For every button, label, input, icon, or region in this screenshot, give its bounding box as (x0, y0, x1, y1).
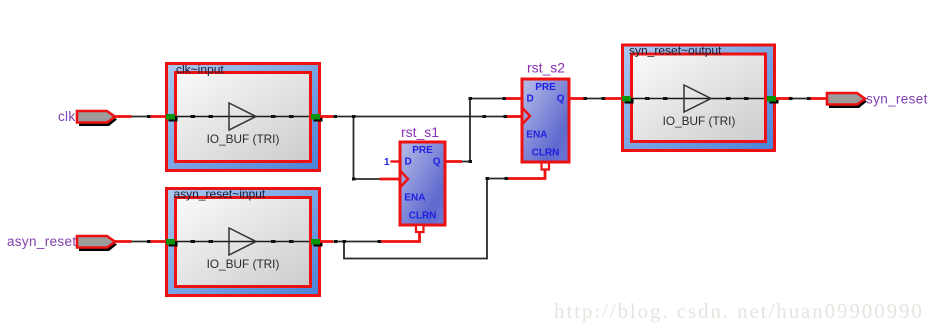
svg-text:Q: Q (433, 157, 441, 168)
svg-text:IO_BUF (TRI): IO_BUF (TRI) (207, 257, 280, 271)
svg-text:PRE: PRE (412, 145, 433, 156)
svg-text:D: D (527, 94, 534, 105)
svg-text:IO_BUF (TRI): IO_BUF (TRI) (663, 114, 736, 128)
svg-text:rst_s1: rst_s1 (401, 124, 439, 140)
svg-text:1: 1 (384, 157, 390, 168)
svg-text:asyn_reset: asyn_reset (7, 234, 77, 249)
svg-text:D: D (405, 157, 412, 168)
svg-text:PRE: PRE (535, 82, 556, 93)
svg-text:syn_reset~output: syn_reset~output (629, 44, 722, 58)
svg-text:ENA: ENA (404, 193, 425, 204)
svg-text:Q: Q (557, 94, 565, 105)
svg-text:asyn_reset~input: asyn_reset~input (174, 187, 266, 201)
svg-text:CLRN: CLRN (409, 211, 437, 222)
svg-text:http://blog. csdn. net/huan099: http://blog. csdn. net/huan09900990 (554, 299, 924, 323)
svg-text:clk~input: clk~input (176, 62, 224, 76)
svg-text:IO_BUF (TRI): IO_BUF (TRI) (207, 132, 280, 146)
svg-text:rst_s2: rst_s2 (527, 60, 565, 76)
svg-text:ENA: ENA (526, 130, 547, 141)
svg-text:clk: clk (58, 109, 76, 124)
svg-text:syn_reset: syn_reset (866, 91, 928, 106)
svg-text:CLRN: CLRN (532, 148, 560, 159)
